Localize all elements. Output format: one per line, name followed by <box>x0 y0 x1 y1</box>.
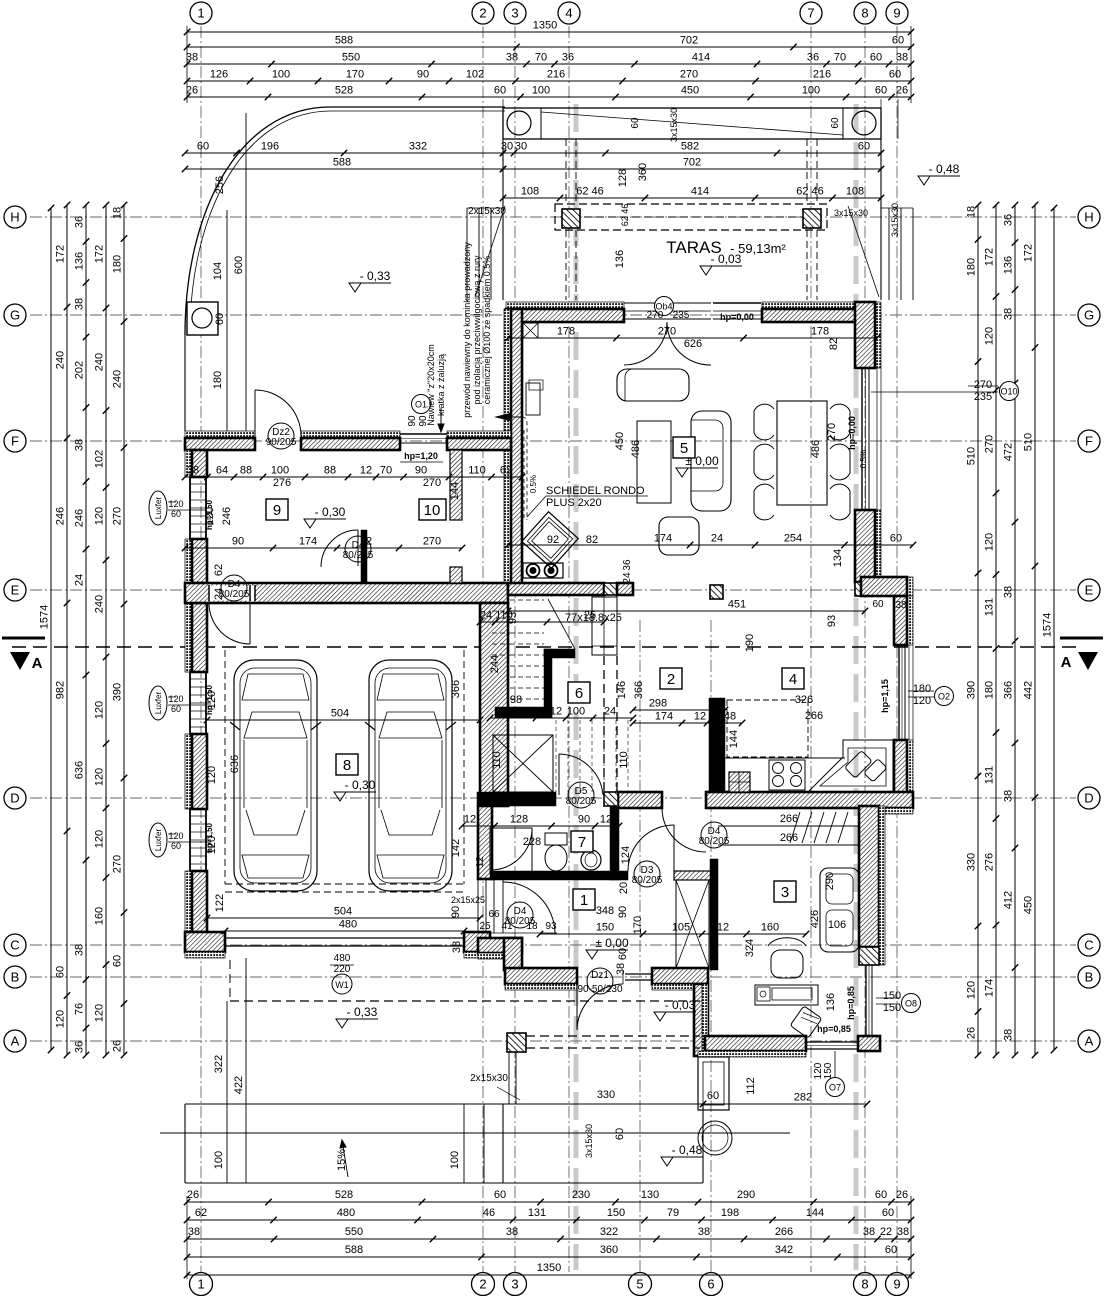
svg-text:450: 450 <box>1023 896 1035 914</box>
svg-text:100: 100 <box>213 1151 225 1169</box>
svg-text:3: 3 <box>511 1277 518 1292</box>
svg-text:hp=1,15: hp=1,15 <box>880 679 890 713</box>
svg-text:7: 7 <box>578 834 586 851</box>
svg-text:62: 62 <box>500 465 512 477</box>
svg-text:60: 60 <box>882 1207 894 1219</box>
svg-text:326: 326 <box>795 694 813 706</box>
svg-text:Luxfer: Luxfer <box>154 692 163 715</box>
svg-text:62: 62 <box>195 1207 207 1219</box>
svg-text:360: 360 <box>637 163 649 181</box>
svg-text:136: 136 <box>1003 256 1015 274</box>
svg-text:98: 98 <box>510 706 522 718</box>
svg-text:ceramicznej Ø100 ze spadkiem 0: ceramicznej Ø100 ze spadkiem 0.5% <box>482 256 492 405</box>
svg-text:480: 480 <box>337 1207 355 1219</box>
svg-text:79: 79 <box>667 1207 679 1219</box>
svg-text:przewód nawiewny do kominka pr: przewód nawiewny do kominka prowadzony <box>462 242 472 418</box>
svg-text:77x18.8x25: 77x18.8x25 <box>565 612 622 624</box>
svg-text:82: 82 <box>828 338 840 350</box>
svg-text:12: 12 <box>360 536 372 548</box>
svg-text:A: A <box>11 1034 20 1049</box>
svg-text:160: 160 <box>761 922 779 934</box>
svg-text:70: 70 <box>834 52 846 64</box>
svg-text:G: G <box>10 308 20 323</box>
svg-text:7: 7 <box>807 6 814 21</box>
svg-text:60: 60 <box>707 1090 719 1102</box>
svg-text:36: 36 <box>74 1041 86 1053</box>
svg-text:588: 588 <box>345 1244 363 1256</box>
svg-text:174: 174 <box>299 536 317 548</box>
svg-text:Luxfer: Luxfer <box>154 497 163 520</box>
svg-text:46: 46 <box>483 1207 495 1219</box>
svg-text:240: 240 <box>94 353 106 371</box>
svg-text:G: G <box>1084 308 1094 323</box>
svg-text:9: 9 <box>273 502 281 519</box>
svg-text:88: 88 <box>240 465 252 477</box>
svg-text:12: 12 <box>708 711 720 723</box>
svg-text:0.5%: 0.5% <box>529 475 538 493</box>
svg-text:- 0,03: - 0,03 <box>665 998 696 1012</box>
svg-text:5: 5 <box>636 1277 643 1292</box>
svg-text:O10: O10 <box>1000 387 1017 397</box>
svg-text:2: 2 <box>479 1277 486 1292</box>
svg-text:60: 60 <box>885 1244 897 1256</box>
svg-text:60: 60 <box>870 52 882 64</box>
svg-text:130: 130 <box>641 1189 659 1201</box>
svg-text:100: 100 <box>449 1151 461 1169</box>
svg-text:270: 270 <box>423 477 441 489</box>
svg-text:90: 90 <box>415 465 427 477</box>
svg-text:80/205: 80/205 <box>566 796 597 807</box>
svg-text:38: 38 <box>506 52 518 64</box>
svg-text:131: 131 <box>528 1207 546 1219</box>
svg-text:172: 172 <box>984 248 996 266</box>
svg-text:26: 26 <box>966 1027 978 1039</box>
svg-text:120: 120 <box>984 533 996 551</box>
svg-text:hp=0,00: hp=0,00 <box>847 416 857 450</box>
svg-text:36: 36 <box>622 559 633 571</box>
svg-text:3x15x30: 3x15x30 <box>890 203 900 237</box>
svg-text:26: 26 <box>187 1189 199 1201</box>
svg-text:216: 216 <box>547 69 565 81</box>
svg-text:422: 422 <box>233 1076 245 1094</box>
svg-text:102: 102 <box>94 450 106 468</box>
svg-text:F: F <box>1085 434 1093 449</box>
svg-text:282: 282 <box>794 1092 812 1104</box>
svg-text:88: 88 <box>324 465 336 477</box>
svg-text:38: 38 <box>74 944 86 956</box>
svg-text:- 0,30: - 0,30 <box>345 778 376 792</box>
svg-text:E: E <box>11 583 20 598</box>
svg-text:24: 24 <box>213 588 225 600</box>
svg-text:24: 24 <box>480 610 492 622</box>
svg-text:120: 120 <box>966 981 978 999</box>
svg-text:0.5%: 0.5% <box>859 450 868 468</box>
svg-text:120: 120 <box>94 701 106 719</box>
svg-text:105: 105 <box>672 922 690 934</box>
svg-text:H: H <box>1084 210 1093 225</box>
svg-text:216: 216 <box>813 69 831 81</box>
svg-text:A: A <box>1061 654 1072 671</box>
svg-text:38: 38 <box>451 941 463 953</box>
svg-text:235: 235 <box>974 391 992 403</box>
svg-text:9: 9 <box>893 1277 900 1292</box>
svg-text:PLUS 2x20: PLUS 2x20 <box>546 497 602 509</box>
svg-text:C: C <box>10 938 19 953</box>
svg-text:38: 38 <box>188 1226 200 1238</box>
svg-text:- 0,48: - 0,48 <box>672 1143 703 1157</box>
svg-text:90: 90 <box>407 415 418 427</box>
svg-text:60: 60 <box>55 966 67 978</box>
svg-text:528: 528 <box>335 85 353 97</box>
svg-text:30: 30 <box>515 141 527 153</box>
svg-text:SCHIEDEL RONDO: SCHIEDEL RONDO <box>546 485 645 497</box>
svg-text:254: 254 <box>784 533 802 545</box>
svg-text:W1: W1 <box>335 980 349 990</box>
svg-text:360: 360 <box>600 1244 618 1256</box>
svg-text:160: 160 <box>94 907 106 925</box>
svg-text:486: 486 <box>810 440 822 458</box>
svg-text:626: 626 <box>684 338 702 350</box>
svg-text:12: 12 <box>717 922 729 934</box>
svg-text:276: 276 <box>984 853 996 871</box>
svg-text:150: 150 <box>596 922 614 934</box>
svg-text:136: 136 <box>825 993 837 1011</box>
svg-text:270: 270 <box>423 536 441 548</box>
svg-text:26: 26 <box>186 85 198 97</box>
svg-text:26: 26 <box>896 1189 908 1201</box>
svg-text:120: 120 <box>168 831 183 841</box>
svg-text:O2: O2 <box>938 692 950 702</box>
svg-text:93: 93 <box>545 921 557 932</box>
svg-text:142: 142 <box>450 839 462 857</box>
svg-text:366: 366 <box>450 680 462 698</box>
svg-text:pod izolacją przeciwwilgociową: pod izolacją przeciwwilgociową z rury <box>472 255 482 405</box>
svg-text:146: 146 <box>616 681 628 699</box>
svg-text:270: 270 <box>112 855 124 873</box>
svg-text:270: 270 <box>112 507 124 525</box>
svg-text:- 0,03: - 0,03 <box>711 252 742 266</box>
svg-text:451: 451 <box>728 599 746 611</box>
svg-text:366: 366 <box>1003 681 1015 699</box>
svg-text:60: 60 <box>494 85 506 97</box>
svg-text:108: 108 <box>521 186 539 198</box>
svg-text:6: 6 <box>707 1277 714 1292</box>
svg-text:26: 26 <box>112 1040 124 1052</box>
svg-text:178: 178 <box>557 326 575 338</box>
svg-text:110: 110 <box>495 610 513 622</box>
svg-text:100: 100 <box>272 69 290 81</box>
svg-text:220: 220 <box>334 964 351 975</box>
svg-text:62: 62 <box>213 564 225 576</box>
svg-text:9: 9 <box>893 6 900 21</box>
svg-text:38: 38 <box>506 1226 518 1238</box>
svg-text:H: H <box>10 210 19 225</box>
svg-text:240: 240 <box>94 595 106 613</box>
svg-text:60: 60 <box>875 1189 887 1201</box>
svg-text:hp=0,85: hp=0,85 <box>846 986 856 1020</box>
svg-text:25: 25 <box>479 921 491 932</box>
svg-text:A: A <box>1085 1034 1094 1049</box>
svg-text:62 46: 62 46 <box>796 186 824 198</box>
svg-text:D: D <box>10 791 19 806</box>
svg-text:426: 426 <box>809 910 821 928</box>
svg-text:O7: O7 <box>829 1083 841 1093</box>
svg-text:102: 102 <box>466 69 484 81</box>
svg-text:110: 110 <box>491 751 503 769</box>
svg-text:70: 70 <box>380 465 392 477</box>
svg-text:12: 12 <box>464 814 476 826</box>
svg-text:270: 270 <box>647 310 664 321</box>
svg-text:180: 180 <box>913 683 931 695</box>
svg-text:504: 504 <box>334 906 352 918</box>
svg-text:hp=1,20: hp=1,20 <box>404 451 438 461</box>
svg-text:636: 636 <box>74 761 86 779</box>
svg-text:60: 60 <box>630 117 641 129</box>
svg-text:322: 322 <box>213 1055 225 1073</box>
svg-text:504: 504 <box>331 708 349 720</box>
svg-text:60: 60 <box>171 509 181 519</box>
svg-text:180: 180 <box>212 371 224 389</box>
svg-text:60: 60 <box>494 1189 506 1201</box>
svg-text:290: 290 <box>737 1189 755 1201</box>
svg-text:3x15x30: 3x15x30 <box>834 208 868 218</box>
svg-text:B: B <box>1085 970 1094 985</box>
svg-text:90: 90 <box>417 69 429 81</box>
svg-text:180: 180 <box>966 258 978 276</box>
svg-text:41: 41 <box>501 921 513 932</box>
svg-text:134: 134 <box>832 549 844 567</box>
svg-text:38: 38 <box>698 1226 710 1238</box>
svg-text:60: 60 <box>858 141 870 153</box>
svg-text:92: 92 <box>547 534 559 546</box>
svg-text:60: 60 <box>890 533 902 545</box>
svg-text:120: 120 <box>94 768 106 786</box>
svg-text:414: 414 <box>692 52 710 64</box>
svg-text:128: 128 <box>510 814 528 826</box>
svg-text:3: 3 <box>781 884 789 901</box>
svg-text:198: 198 <box>721 1207 739 1219</box>
svg-text:510: 510 <box>966 447 978 465</box>
svg-text:38: 38 <box>186 52 198 64</box>
svg-text:480: 480 <box>334 953 351 964</box>
svg-text:38: 38 <box>1003 308 1015 320</box>
svg-text:D: D <box>1084 791 1093 806</box>
svg-text:90: 90 <box>617 906 629 918</box>
svg-text:266: 266 <box>775 1226 793 1238</box>
svg-text:3: 3 <box>511 6 518 21</box>
svg-text:36: 36 <box>1003 214 1015 226</box>
svg-text:2x15x30: 2x15x30 <box>468 206 506 217</box>
svg-text:442: 442 <box>1023 681 1035 699</box>
svg-text:kratka z żaluzją: kratka z żaluzją <box>436 354 446 416</box>
svg-text:38: 38 <box>1003 1029 1015 1041</box>
svg-text:144: 144 <box>806 1207 824 1219</box>
svg-text:128: 128 <box>617 169 629 187</box>
svg-text:486: 486 <box>630 440 642 458</box>
svg-text:hp=0,85: hp=0,85 <box>817 1024 851 1034</box>
svg-text:1574: 1574 <box>39 605 51 629</box>
svg-text:O8: O8 <box>905 999 917 1009</box>
svg-text:266: 266 <box>780 813 798 825</box>
svg-text:550: 550 <box>342 52 360 64</box>
svg-text:150: 150 <box>823 1062 834 1079</box>
svg-text:246: 246 <box>221 507 233 525</box>
svg-text:230: 230 <box>572 1189 590 1201</box>
svg-text:170: 170 <box>346 69 364 81</box>
svg-text:24: 24 <box>622 572 633 584</box>
svg-text:246: 246 <box>74 509 86 527</box>
svg-text:120: 120 <box>984 327 996 345</box>
svg-text:38: 38 <box>1003 586 1015 598</box>
svg-text:982: 982 <box>55 681 67 699</box>
svg-text:108: 108 <box>846 186 864 198</box>
svg-text:240: 240 <box>55 351 67 369</box>
svg-text:180: 180 <box>112 255 124 273</box>
svg-text:1350: 1350 <box>533 20 557 32</box>
svg-text:3x15x30: 3x15x30 <box>669 108 679 142</box>
svg-text:450: 450 <box>681 85 699 97</box>
svg-text:38: 38 <box>615 963 627 975</box>
svg-text:110: 110 <box>468 465 486 477</box>
svg-text:60: 60 <box>889 69 901 81</box>
svg-text:324: 324 <box>744 939 756 957</box>
svg-text:178: 178 <box>811 326 829 338</box>
svg-text:266: 266 <box>780 832 798 844</box>
svg-text:270: 270 <box>680 69 698 81</box>
svg-text:240: 240 <box>112 370 124 388</box>
svg-text:588: 588 <box>335 35 353 47</box>
svg-text:4: 4 <box>565 6 572 21</box>
svg-text:112: 112 <box>745 1077 757 1095</box>
svg-text:472: 472 <box>1003 443 1015 461</box>
svg-text:12: 12 <box>694 711 706 723</box>
svg-text:144: 144 <box>449 482 461 500</box>
svg-text:24: 24 <box>74 574 86 586</box>
svg-text:20: 20 <box>618 882 630 894</box>
svg-text:228: 228 <box>523 836 541 848</box>
svg-text:2x15x30: 2x15x30 <box>470 1073 508 1084</box>
svg-text:366: 366 <box>633 681 645 699</box>
svg-text:60: 60 <box>171 704 181 714</box>
svg-text:64: 64 <box>216 465 228 477</box>
svg-text:144: 144 <box>728 730 740 748</box>
svg-text:636: 636 <box>229 755 241 773</box>
svg-text:38: 38 <box>187 465 199 477</box>
svg-text:3x15x30: 3x15x30 <box>584 1124 594 1158</box>
svg-text:196: 196 <box>261 141 279 153</box>
svg-text:120: 120 <box>55 1010 67 1028</box>
svg-text:550: 550 <box>345 1226 363 1238</box>
svg-text:12: 12 <box>600 814 612 826</box>
svg-text:450: 450 <box>614 432 626 450</box>
svg-text:62 46: 62 46 <box>576 186 604 198</box>
svg-text:6: 6 <box>575 685 583 702</box>
svg-text:62 46: 62 46 <box>620 204 630 227</box>
svg-text:10: 10 <box>424 502 441 519</box>
svg-text:120: 120 <box>94 1004 106 1022</box>
svg-text:B: B <box>11 970 20 985</box>
svg-text:120: 120 <box>94 830 106 848</box>
svg-text:- 0,33: - 0,33 <box>360 269 391 283</box>
svg-text:18: 18 <box>112 207 124 219</box>
svg-text:98: 98 <box>510 694 522 706</box>
svg-text:150: 150 <box>883 990 901 1002</box>
svg-text:36: 36 <box>562 52 574 64</box>
svg-text:100: 100 <box>532 85 550 97</box>
svg-text:124: 124 <box>620 846 632 864</box>
svg-text:172: 172 <box>1023 244 1035 262</box>
svg-text:80/205: 80/205 <box>343 550 374 561</box>
svg-text:1: 1 <box>580 892 588 909</box>
svg-text:2: 2 <box>479 6 486 21</box>
svg-text:5: 5 <box>680 440 688 457</box>
svg-text:270: 270 <box>974 379 992 391</box>
svg-text:90: 90 <box>232 536 244 548</box>
svg-text:2x15x25: 2x15x25 <box>451 895 485 905</box>
svg-text:120: 120 <box>206 691 218 709</box>
svg-text:120: 120 <box>204 507 216 525</box>
svg-text:100: 100 <box>271 465 289 477</box>
svg-text:93: 93 <box>826 615 838 627</box>
svg-text:60: 60 <box>197 141 209 153</box>
svg-text:38: 38 <box>74 439 86 451</box>
svg-text:24: 24 <box>711 533 723 545</box>
svg-text:Dz1: Dz1 <box>591 970 609 981</box>
svg-text:38: 38 <box>896 52 908 64</box>
svg-text:256: 256 <box>214 176 226 194</box>
svg-text:170: 170 <box>632 916 644 934</box>
svg-text:290: 290 <box>824 872 836 890</box>
svg-text:390: 390 <box>966 681 978 699</box>
svg-text:276: 276 <box>273 477 291 489</box>
svg-text:90-50/230: 90-50/230 <box>577 984 622 995</box>
svg-text:66: 66 <box>488 909 500 920</box>
svg-text:330: 330 <box>966 853 978 871</box>
svg-text:332: 332 <box>409 141 427 153</box>
svg-text:A: A <box>32 655 43 672</box>
svg-text:- 0,33: - 0,33 <box>347 1005 378 1019</box>
svg-text:342: 342 <box>775 1244 793 1256</box>
svg-text:390: 390 <box>112 683 124 701</box>
svg-text:60: 60 <box>830 117 841 129</box>
svg-text:131: 131 <box>984 766 996 784</box>
svg-text:174: 174 <box>984 979 996 997</box>
svg-text:235: 235 <box>673 310 690 321</box>
svg-text:12: 12 <box>360 465 372 477</box>
svg-text:322: 322 <box>600 1226 618 1238</box>
svg-text:38: 38 <box>863 1226 875 1238</box>
svg-text:1574: 1574 <box>1042 613 1054 637</box>
svg-text:60: 60 <box>112 955 124 967</box>
svg-text:270: 270 <box>984 435 996 453</box>
svg-text:Nawiew "z"20x20cm: Nawiew "z"20x20cm <box>426 344 436 425</box>
svg-text:510: 510 <box>1023 433 1035 451</box>
svg-text:190: 190 <box>744 634 756 652</box>
svg-text:600: 600 <box>233 256 245 274</box>
svg-text:702: 702 <box>683 157 701 169</box>
svg-text:hp=0,00: hp=0,00 <box>720 312 754 322</box>
svg-text:E: E <box>1085 583 1094 598</box>
svg-text:30: 30 <box>501 141 513 153</box>
svg-text:412: 412 <box>1003 891 1015 909</box>
svg-text:702: 702 <box>680 35 698 47</box>
svg-text:330: 330 <box>597 1089 615 1101</box>
svg-text:18: 18 <box>966 206 978 218</box>
svg-text:12: 12 <box>550 706 562 718</box>
svg-text:174: 174 <box>655 711 673 723</box>
svg-text:60: 60 <box>872 599 884 610</box>
svg-text:82: 82 <box>586 534 598 546</box>
